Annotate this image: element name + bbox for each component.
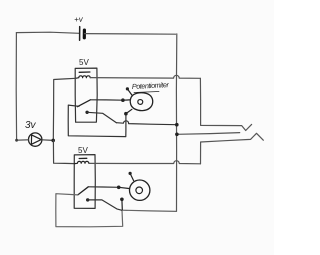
junction dot at left corner xyxy=(15,139,18,142)
potentiometer bottom terminal xyxy=(124,112,128,116)
potentiometer VR1 inner circle xyxy=(138,100,143,105)
svg-text:+v: +v xyxy=(74,15,84,25)
wire: K1 arm to potentiometer left terminal xyxy=(90,99,122,101)
motor M1 inner circle xyxy=(136,187,143,194)
wire: left rail to source xyxy=(17,139,29,141)
wire: bottom return to rail xyxy=(122,210,177,211)
potentiometer left terminal xyxy=(121,98,125,102)
wire: top rail from battery to left corner xyxy=(16,32,79,33)
relay K2 coil core bar xyxy=(79,157,87,159)
wire: K2 coil to switch S1 bottom (hop over rail) xyxy=(89,161,200,164)
junction dot on right rail (middle wire) xyxy=(175,133,179,137)
relay K2 contact 2 dot xyxy=(86,198,89,201)
wire: node A up to K1 coil xyxy=(53,78,76,140)
wire: node A down to K2 coil xyxy=(53,140,74,163)
svg-text:3v: 3v xyxy=(25,120,37,131)
relay K2 coil xyxy=(75,161,89,163)
battery B1 long plate xyxy=(79,27,81,41)
node A junction dot xyxy=(51,139,55,143)
wire: source to node A xyxy=(42,139,53,142)
relay K1 coil core bar xyxy=(79,71,90,73)
wire: K1 coil to right rail (hop) then switch S1 top xyxy=(91,75,201,78)
potentiometer top terminal xyxy=(126,87,129,90)
junction dot on right rail (pot bottom wire) xyxy=(175,123,179,127)
wire: right vertical rail xyxy=(175,34,177,212)
wire: middle to switch S1 center xyxy=(177,133,240,135)
battery B1 short thick plate xyxy=(83,30,86,38)
relay K1 switch arm xyxy=(77,100,90,107)
svg-text:5V: 5V xyxy=(79,58,89,67)
motor bottom terminal xyxy=(120,198,124,202)
wire: K2 contact 2 diagonal to junction xyxy=(88,200,122,210)
potentiometer VR1 body xyxy=(130,93,152,111)
wire: K1 contact 2 to node, diagonal xyxy=(87,112,116,122)
motor top terminal xyxy=(129,172,132,175)
motor M1 body xyxy=(130,180,150,200)
relay K1 box xyxy=(75,68,97,122)
wire: left vertical rail xyxy=(15,33,17,141)
wire: K2 arm to motor left terminal xyxy=(88,186,118,189)
wire: battery to right rail xyxy=(85,33,176,36)
wire: K2 pivot bracket xyxy=(56,194,123,227)
motor left terminal xyxy=(117,186,121,190)
svg-text:5V: 5V xyxy=(78,146,88,155)
svg-text:Potentiomiter: Potentiomiter xyxy=(132,80,170,91)
source G1 (3v) circle xyxy=(29,133,42,146)
wire: node to right rail (hop over pot wire) xyxy=(116,121,176,125)
relay K1 coil xyxy=(76,76,91,79)
relay K2 box xyxy=(74,155,95,209)
relay K2 switch arm xyxy=(78,187,89,195)
relay K1 contact 2 dot xyxy=(85,111,88,114)
wire: pot wiper down, around to K1 pivot xyxy=(68,105,126,137)
source G1 triangle xyxy=(31,135,41,144)
